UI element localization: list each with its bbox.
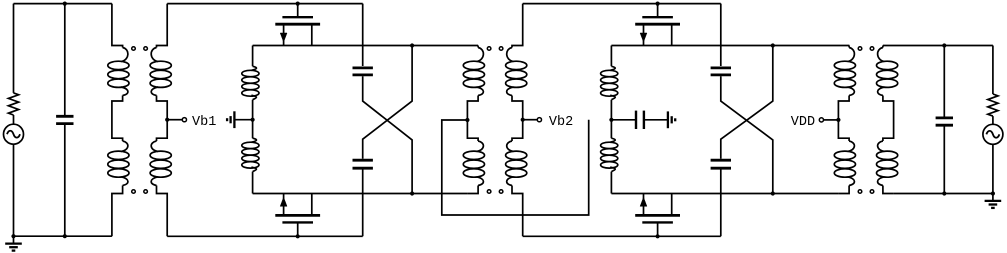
polarity dot T2 secondary bottom xyxy=(499,190,503,194)
wire stage2 top source/drain line xyxy=(611,45,849,47)
junction dot stage1 top output xyxy=(410,43,414,47)
polarity dot T1 primary bottom xyxy=(132,190,136,194)
label Vb2 xyxy=(549,115,573,130)
polarity dot T3 primary bottom xyxy=(858,190,862,194)
transistor M4 bottom device xyxy=(635,194,680,237)
junction dot source bottom xyxy=(11,234,15,238)
node top rail input section xyxy=(14,3,112,5)
wire input source branch upper lead xyxy=(13,4,15,93)
transformer T1 primary winding xyxy=(108,4,129,237)
node stage2 bottom gate rail xyxy=(523,235,721,237)
transformer T2 secondary winding xyxy=(506,4,527,237)
capacitor stage2 top neutralization cap xyxy=(711,68,731,75)
node stage2 top gate rail xyxy=(523,3,721,5)
transistor M2 bottom device xyxy=(275,194,320,237)
wire load resistor to source xyxy=(992,116,994,124)
inductor L2 stage1 lower xyxy=(242,138,259,171)
terminal VDD xyxy=(819,118,823,122)
capacitor C2 stage2 gate bypass xyxy=(636,111,644,129)
wire output cap top lead xyxy=(943,46,945,118)
label VDD xyxy=(791,115,815,130)
wire stage1 top-gate feed xyxy=(362,4,364,66)
wire stage2 degeneration branch xyxy=(610,46,612,194)
wire stage1 cross-coupling upper-right to lower-left xyxy=(363,46,412,159)
transistor M1 top device xyxy=(275,4,320,46)
ground stage1 AC ground xyxy=(227,111,234,128)
junction dot stage2 top output xyxy=(771,43,775,47)
junction dot M4 gate xyxy=(656,234,660,238)
resistor RL load resistance xyxy=(988,94,998,116)
junction dot T3 primary center tap xyxy=(836,118,840,122)
wire input cap bottom lead xyxy=(64,124,66,237)
polarity dot T3 secondary top xyxy=(870,47,874,51)
wire load to bottom xyxy=(992,144,994,193)
wire Vb1 tap xyxy=(167,119,182,121)
junction dot input cap top xyxy=(63,2,67,6)
svg-text:Vb1: Vb1 xyxy=(192,115,216,130)
junction dot M3 gate xyxy=(656,2,660,6)
junction dot T2 primary center tap xyxy=(465,118,469,122)
polarity dot T2 primary bottom xyxy=(487,190,491,194)
label Vb1 xyxy=(192,115,216,130)
wire input cap top lead xyxy=(64,4,66,117)
wire T2 center tap link xyxy=(442,120,589,215)
junction dot output cap top xyxy=(942,43,946,47)
junction dot stage2 inductor center xyxy=(609,118,613,122)
wire load branch upper lead xyxy=(992,46,994,95)
AC source output port xyxy=(983,124,1003,144)
wire stage1 cross-coupling upper-left to lower-right xyxy=(363,76,412,193)
wire stage1 bottom-gate feed xyxy=(362,170,364,237)
resistor RS source resistance xyxy=(8,93,18,115)
terminal Vb2 xyxy=(537,118,541,122)
AC source VIN xyxy=(4,124,24,144)
junction dot input cap bottom xyxy=(63,234,67,238)
wire bypass cap to ground xyxy=(645,119,668,121)
node stage1 top gate rail xyxy=(167,3,363,5)
junction dot stage1 inductor center xyxy=(251,118,255,122)
junction dot M2 gate xyxy=(296,234,300,238)
junction dot output ground xyxy=(991,191,995,195)
capacitor C3 output shunt cap xyxy=(936,118,953,125)
wire stage1 center to ground xyxy=(234,119,252,121)
wire stage2 bottom source/drain line xyxy=(611,193,838,195)
junction dot stage1 bottom output xyxy=(410,191,414,195)
transformer T1 secondary winding xyxy=(150,4,171,237)
capacitor stage1 bottom neutralization cap xyxy=(353,160,373,168)
inductor L3 stage2 upper xyxy=(601,66,618,99)
wire output cap bottom lead xyxy=(943,125,945,193)
polarity dot T3 primary top xyxy=(858,47,862,51)
wire Vb2 tap xyxy=(523,119,538,121)
transformer T3 primary winding xyxy=(834,46,855,194)
ground input xyxy=(5,236,22,250)
junction dot T2 secondary center tap xyxy=(521,118,525,122)
wire stage2 bottom-gate feed xyxy=(720,170,722,237)
polarity dot T1 secondary bottom xyxy=(144,190,148,194)
capacitor stage1 top neutralization cap xyxy=(353,68,373,75)
inductor L1 stage1 upper xyxy=(242,66,259,99)
junction dot stage2 bottom output xyxy=(771,191,775,195)
polarity dot T2 primary top xyxy=(487,47,491,51)
capacitor C1 input shunt cap xyxy=(56,116,73,123)
ground stage2 AC ground xyxy=(668,111,675,128)
capacitor stage2 bottom neutralization cap xyxy=(711,160,731,168)
polarity dot T1 primary top xyxy=(132,47,136,51)
wire stage1 bottom source/drain line xyxy=(253,193,468,195)
wire stage2 center to bypass cap xyxy=(611,119,635,121)
svg-text:VDD: VDD xyxy=(791,115,815,130)
transistor M3 top device xyxy=(635,4,680,46)
wire stage1 top source/drain line xyxy=(253,45,479,47)
junction dot T1 secondary center tap xyxy=(165,118,169,122)
node stage1 bottom gate rail xyxy=(167,235,363,237)
node bottom rail input section xyxy=(14,235,112,237)
wire stage2 cross-coupling upper-left to lower-right xyxy=(721,76,773,193)
wire resistor to source xyxy=(13,115,15,124)
svg-text:Vb2: Vb2 xyxy=(549,115,573,130)
junction dot M1 gate xyxy=(296,2,300,6)
inductor L4 stage2 lower xyxy=(601,138,618,171)
polarity dot T3 secondary bottom xyxy=(870,190,874,194)
polarity dot T1 secondary top xyxy=(144,47,148,51)
wire VDD feed xyxy=(823,119,838,121)
junction dot output cap bottom xyxy=(942,191,946,195)
transformer T2 primary winding xyxy=(463,46,484,194)
polarity dot T2 secondary top xyxy=(499,47,503,51)
wire stage2 top-gate feed xyxy=(720,4,722,66)
ground output xyxy=(985,194,1002,208)
transformer T3 secondary winding xyxy=(877,46,898,194)
wire output top xyxy=(883,45,993,47)
wire source to bottom rail xyxy=(13,144,15,236)
terminal Vb1 xyxy=(182,118,186,122)
wire stage2 cross-coupling upper-right to lower-left xyxy=(721,46,773,159)
wire output bottom xyxy=(894,193,993,195)
wire stage1 degeneration branch xyxy=(252,46,254,194)
